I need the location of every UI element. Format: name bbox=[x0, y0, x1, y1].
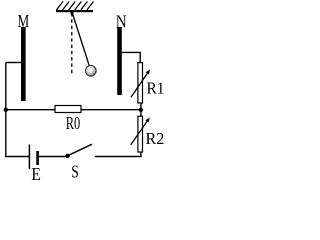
svg-text:M: M bbox=[18, 11, 30, 31]
svg-text:N: N bbox=[116, 11, 127, 31]
svg-text:R0: R0 bbox=[66, 113, 81, 133]
svg-text:E: E bbox=[31, 164, 41, 180]
svg-text:S: S bbox=[71, 161, 79, 180]
svg-text:R2: R2 bbox=[146, 129, 165, 148]
svg-text:R1: R1 bbox=[147, 78, 165, 97]
